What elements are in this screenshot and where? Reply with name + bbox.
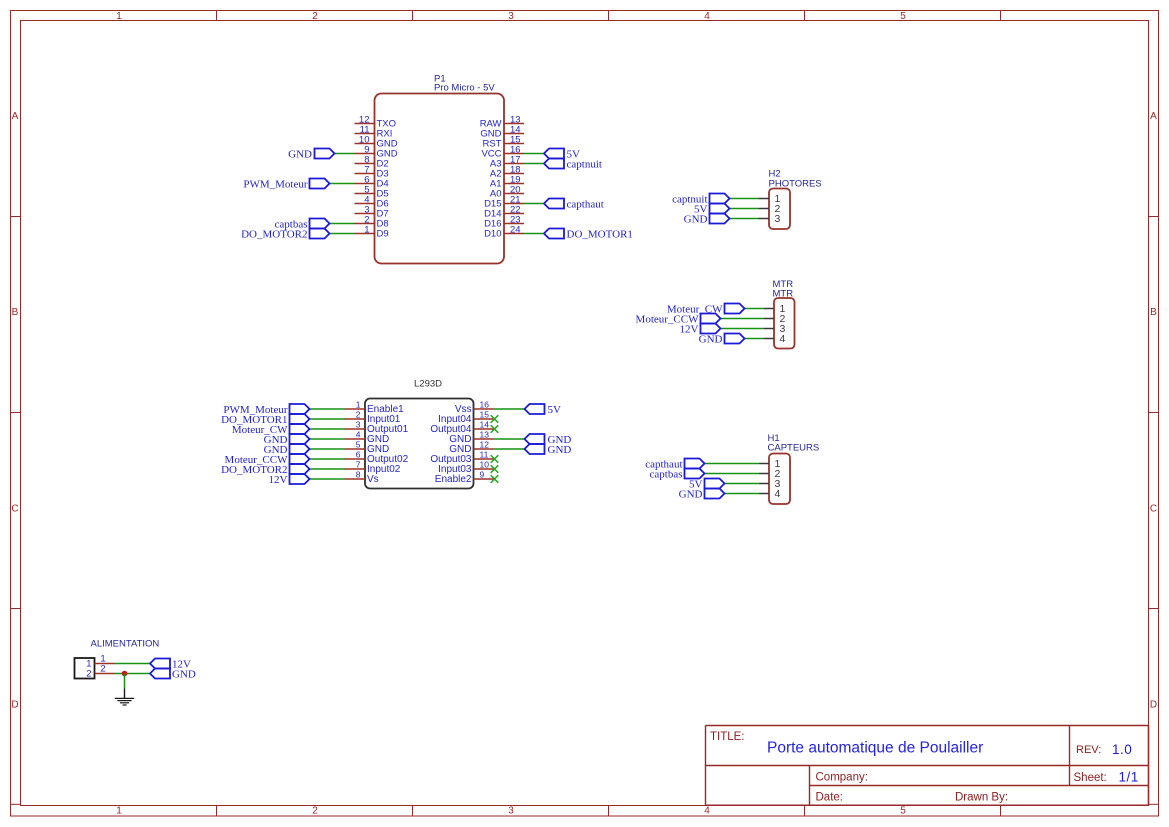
svg-text:3: 3: [508, 806, 514, 817]
svg-text:4: 4: [704, 11, 710, 22]
svg-text:3: 3: [775, 213, 781, 225]
svg-text:3: 3: [508, 11, 514, 22]
svg-text:captnuit: captnuit: [567, 159, 602, 171]
svg-text:6: 6: [356, 450, 361, 460]
svg-text:14: 14: [480, 420, 490, 430]
svg-text:B: B: [12, 307, 19, 318]
svg-text:C: C: [11, 503, 18, 514]
svg-text:3: 3: [356, 420, 361, 430]
svg-text:12V: 12V: [680, 324, 699, 336]
svg-text:Porte automatique de Poulaille: Porte automatique de Poulailler: [767, 740, 983, 757]
svg-text:1/1: 1/1: [1119, 770, 1139, 785]
svg-text:5: 5: [356, 440, 361, 450]
svg-text:Company:: Company:: [816, 772, 868, 784]
svg-text:Enable2: Enable2: [435, 474, 472, 485]
svg-text:REV:: REV:: [1076, 744, 1101, 756]
svg-text:1.0: 1.0: [1112, 742, 1132, 757]
svg-text:CAPTEURS: CAPTEURS: [768, 443, 820, 454]
svg-text:ALIMENTATION: ALIMENTATION: [91, 639, 160, 650]
svg-text:Drawn By:: Drawn By:: [955, 792, 1008, 804]
svg-text:4: 4: [775, 488, 781, 500]
svg-text:11: 11: [480, 450, 489, 460]
svg-text:1: 1: [116, 11, 122, 22]
svg-text:24: 24: [510, 224, 521, 235]
svg-text:15: 15: [480, 410, 490, 420]
svg-text:1: 1: [364, 224, 369, 235]
svg-text:D: D: [11, 700, 18, 711]
svg-text:Pro Micro - 5V: Pro Micro - 5V: [434, 83, 495, 94]
svg-text:2: 2: [100, 664, 105, 675]
svg-text:2: 2: [356, 410, 361, 420]
svg-text:L293D: L293D: [414, 379, 442, 390]
svg-text:GND: GND: [684, 214, 708, 226]
svg-text:8: 8: [356, 470, 361, 480]
svg-text:capthaut: capthaut: [567, 199, 604, 211]
svg-text:4: 4: [356, 430, 361, 440]
svg-text:12: 12: [480, 440, 490, 450]
svg-text:D10: D10: [484, 229, 501, 240]
svg-text:2: 2: [312, 11, 318, 22]
svg-text:5: 5: [900, 11, 906, 22]
svg-text:GND: GND: [172, 669, 196, 681]
svg-text:4: 4: [780, 333, 786, 345]
svg-text:TITLE:: TITLE:: [710, 731, 745, 743]
svg-text:captbas: captbas: [650, 469, 683, 481]
svg-text:12V: 12V: [269, 474, 288, 486]
svg-text:2: 2: [312, 806, 318, 817]
svg-text:PWM_Moteur: PWM_Moteur: [243, 179, 308, 191]
svg-text:D9: D9: [377, 229, 389, 240]
svg-text:GND: GND: [548, 444, 572, 456]
svg-text:10: 10: [480, 460, 490, 470]
svg-text:B: B: [1150, 307, 1157, 318]
svg-text:C: C: [1150, 503, 1157, 514]
svg-text:5: 5: [900, 806, 906, 817]
svg-text:GND: GND: [699, 334, 723, 346]
svg-text:2: 2: [86, 668, 91, 679]
svg-text:1: 1: [116, 806, 122, 817]
svg-text:5V: 5V: [548, 404, 562, 416]
svg-text:9: 9: [480, 470, 485, 480]
svg-text:16: 16: [480, 400, 490, 410]
svg-text:A: A: [12, 111, 19, 122]
svg-text:A: A: [1150, 111, 1157, 122]
svg-text:7: 7: [356, 460, 361, 470]
svg-text:4: 4: [704, 806, 710, 817]
svg-text:DO_MOTOR1: DO_MOTOR1: [567, 229, 633, 241]
svg-text:Date:: Date:: [816, 792, 844, 804]
svg-text:13: 13: [480, 430, 490, 440]
svg-text:GND: GND: [288, 149, 312, 161]
svg-text:Vs: Vs: [367, 474, 379, 485]
svg-text:DO_MOTOR2: DO_MOTOR2: [241, 229, 307, 241]
svg-text:Sheet:: Sheet:: [1074, 772, 1107, 784]
svg-text:D: D: [1150, 700, 1157, 711]
svg-text:GND: GND: [679, 489, 703, 501]
svg-text:1: 1: [356, 400, 361, 410]
